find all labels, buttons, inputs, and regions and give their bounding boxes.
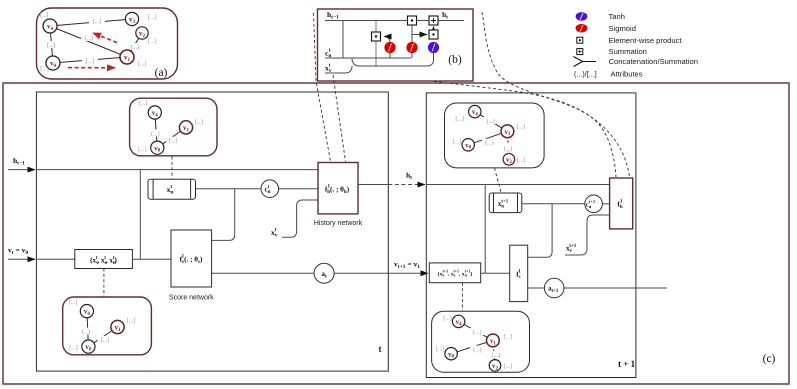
top graph node v0 [151,141,164,154]
bg edge label v1-v2 [489,351,504,358]
bg node v4 [452,315,464,327]
svg-text:fh1: fh1 [617,200,623,210]
box f_s [171,230,212,287]
wire h_t-1 input arrow [8,169,35,171]
dashed graph to xn [495,168,502,193]
svg-text:[...]: [...] [47,43,56,49]
top graph frame [130,98,217,156]
svg-text:fs1(. ; θs): fs1(. ; θs) [180,255,203,265]
node c_n^t [261,180,279,198]
dashed braces to bottom graph [461,283,463,311]
wire curved arrow sigmoid1 to product1 [384,37,390,44]
svg-text:[...]: [...] [86,59,95,65]
edge label v0-v1 [82,57,98,64]
dashed braces to bottom graph [103,269,105,297]
wire x_v to fh [565,215,610,255]
top graph edge label v0-v1 [166,137,181,144]
svg-text:fs1: fs1 [516,270,521,280]
wire a_t to edge [334,272,388,274]
panel (b) frame [318,9,474,81]
wire arrow product3 to sum [433,27,435,31]
svg-text:[...]: [...] [40,67,49,73]
element-wise symbol [577,37,583,43]
wire vertical from h [342,21,344,59]
tg edge v0-v1 [468,131,507,145]
svg-text:[...]: [...] [455,117,464,123]
svg-text:(...): (...) [486,118,495,125]
bg node v2 [489,360,501,372]
svg-text:[...]: [...] [139,101,148,107]
panel (a) frame [37,8,178,79]
node v3 [125,12,138,25]
bottom graph edge v0-v1 [88,327,117,347]
wire xn to c circle [196,188,262,190]
node c_n^t+1 [585,195,603,213]
bottom graph edge v4-v0 [87,311,89,347]
wire h branch down [484,185,486,274]
wire vertical forget [411,21,413,59]
wire arrow to product3 [412,34,427,36]
svg-text:Sigmoid: Sigmoid [609,24,636,33]
svg-text:fh1(. ; θh): fh1(. ; θh) [325,185,350,195]
node a_t [314,263,334,283]
svg-text:[...]: [...] [93,19,102,25]
svg-text:[...]: [...] [138,62,147,68]
svg-text:(...): (...) [485,140,494,147]
svg-text:Tanh: Tanh [609,12,625,21]
svg-text:[...]: [...] [101,338,110,344]
svg-text:History network: History network [314,220,363,227]
svg-text:(...): (...) [151,131,160,138]
svg-text:Summation: Summation [609,47,647,56]
edge v1-v2 [127,33,142,57]
tg edge v4-v1 [475,112,508,132]
bottom graph frame [432,311,530,372]
edge v0-v1 [53,57,127,63]
wire fs to a_t+1 [528,287,545,289]
wire c to fh [602,203,609,205]
wire h top [325,20,464,22]
svg-text:(...): (...) [82,329,91,336]
svg-text:[...]: [...] [40,13,49,19]
node v1 [120,50,134,64]
edge v4-v0 [50,26,53,63]
svg-text:[...]: [...] [504,334,513,340]
svg-text:(...): (...) [473,329,482,336]
summation box [429,16,438,25]
node v2 [136,27,148,39]
svg-text:[...]: [...] [517,125,526,131]
edge label v4-v3 [89,17,105,24]
bg edge label v4-v1 [470,328,485,335]
box braces xt [75,250,133,269]
edge label v4-v0 [43,41,59,48]
summation symbol [577,49,583,55]
tanh [428,42,439,53]
box f_s t+1 [510,245,528,301]
zoom dash line b to left fh (outer) [314,13,331,162]
svg-text:[...]: [...] [443,316,452,322]
svg-text:(...): (...) [131,44,140,51]
tg node v2 [503,154,515,166]
top graph edge v0-v1 [157,127,186,147]
wire x_v to fh [282,200,318,237]
sigmoid symbol [576,24,588,33]
svg-text:(c): (c) [763,353,776,365]
svg-text:t + 1: t + 1 [618,359,636,369]
svg-text:[...]: [...] [69,300,78,306]
svg-text:(...): (...) [473,347,482,354]
box braces t+1 [429,263,480,283]
wire braces to fs [481,272,510,274]
bg edge v0-v1 [451,340,493,353]
tg edge v1-v2 dashed [507,131,509,159]
wire v_t inside [36,258,74,260]
svg-text:Element-wise product: Element-wise product [609,36,683,45]
sigmoid 2 [406,42,417,53]
svg-text:[...]: [...] [138,147,147,153]
t panel frame [36,92,388,371]
zoom dash line b to left fh (inner) [333,75,346,162]
wire vertical product1 [375,21,377,67]
svg-text:Concatenation/Summation: Concatenation/Summation [609,57,699,66]
svg-text:t: t [379,344,382,354]
wire sigmoid stems [389,53,391,58]
outer figure frame (c) [3,83,789,384]
top graph edge label v4-v0 [148,130,163,137]
svg-text:(a): (a) [155,67,168,79]
edge label v4-v1 [81,34,97,41]
wire fs to a_t [212,272,314,274]
bottom graph node v4 [80,305,93,318]
wire h branch down [139,170,141,260]
top graph edge v4-v0 [155,113,158,148]
svg-text:[...]: [...] [504,364,513,370]
wire c line [325,57,411,59]
tg edge label v0-v1 [482,139,497,146]
wire h_t inside [426,184,609,186]
box x_n^t+1 [489,193,522,213]
box f_h [318,163,358,214]
node a_t+1 [544,278,564,298]
zoom dash curve b to right fh (upper) [482,12,616,177]
svg-text:[...]: [...] [127,319,136,325]
top graph frame [445,103,545,168]
svg-text:[...]: [...] [436,347,445,353]
top graph node v4 [148,106,161,119]
edge v4-v3 [50,19,132,26]
wire braces to fs [132,258,171,260]
bottom graph edge label v4-v0 [79,328,94,335]
wire lower line [352,53,434,66]
wire h_t out [358,184,388,186]
wire h_t dashed arrow [388,184,425,186]
zoom dash curve b to right fh (lower) [434,82,630,178]
top graph node v1 [179,121,192,134]
tg edge label v1-v2 [501,144,516,151]
edge label v1-v2 [127,43,143,50]
bg edge label v0-v1 [470,346,485,353]
svg-text:(...): (...) [504,145,513,152]
svg-text:(...)/[...]: (...)/[...] [574,70,597,79]
svg-text:(...): (...) [492,352,501,359]
bottom graph node v0 [82,340,95,353]
svg-text:{xvt, xet, xnt}: {xvt, xet, xnt} [90,256,118,266]
node v4 [43,19,57,33]
svg-text:[...]: [...] [85,36,94,42]
svg-text:[...]: [...] [169,139,178,145]
wire v_t+1 arrow [388,272,428,274]
tg edge label v4-v1 [484,117,499,124]
bottom graph frame [63,297,152,355]
bg node v0 [445,348,457,360]
box x_n^t [148,179,196,199]
dashed graph to xn [171,157,173,179]
svg-text:[...]: [...] [195,120,204,126]
wire xn branch down to fs [528,204,552,257]
tg node v4 [469,105,481,117]
bg edge v4-v1 [459,321,493,340]
product box 1 [372,32,381,41]
bottom graph node v1 [111,320,124,333]
tg node v0 [462,139,474,151]
bg node v1 [487,334,500,347]
wire a_t+1 right [564,287,667,289]
box f_h t+1 [610,178,633,229]
tg node v1 [501,125,514,138]
svg-text:[...]: [...] [69,346,78,352]
svg-text:[...]: [...] [517,158,526,164]
svg-text:Score network: Score network [169,294,214,301]
wire xn to c [522,203,585,205]
red arrow right [68,67,115,69]
concat symbol [574,57,597,67]
wire c to fh [279,188,318,190]
svg-text:[...]: [...] [453,140,462,146]
t+1 panel frame [426,93,636,378]
svg-text:Attributes: Attributes [611,70,643,79]
sigmoid 1 [384,42,395,53]
edge v4-v1 [50,26,127,57]
svg-text:[...]: [...] [148,39,157,45]
svg-text:[...]: [...] [148,15,157,21]
node v0 [46,56,60,70]
svg-text:cnt: cnt [325,48,331,59]
product box 2 [408,16,417,25]
product box 3 [429,30,438,39]
bottom graph edge label v0-v1 [98,336,113,343]
svg-text:(b): (b) [448,54,462,66]
tanh symbol [576,12,588,21]
red arrow up-left [93,33,117,43]
bg edge v1-v2 dashed [493,340,495,365]
wire v_t input arrow [8,258,35,260]
wire h_t-1 inside [36,169,318,171]
wire xn branch down to fs [212,189,235,241]
wire x line [325,66,352,73]
